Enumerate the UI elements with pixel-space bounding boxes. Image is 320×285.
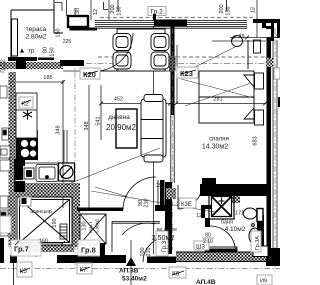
svg-text:3.50м2: 3.50м2	[152, 233, 175, 242]
svg-text:баня: баня	[221, 220, 233, 226]
svg-text:АП.4В: АП.4В	[196, 279, 216, 285]
svg-text:541: 541	[96, 116, 102, 125]
svg-text:12: 12	[196, 213, 202, 219]
svg-text:348: 348	[84, 121, 90, 130]
svg-text:150: 150	[117, 6, 123, 15]
svg-text:281: 281	[213, 97, 222, 103]
svg-text:12: 12	[251, 7, 257, 13]
svg-text:4.10м2: 4.10м2	[225, 226, 246, 233]
svg-text:Гр.2: Гр.2	[151, 9, 164, 16]
svg-text:39: 39	[238, 34, 244, 40]
svg-text:тр.: тр.	[28, 49, 36, 55]
svg-text:Гр.8: Гр.8	[81, 246, 96, 255]
svg-text:160: 160	[39, 239, 48, 245]
svg-text:200: 200	[110, 4, 116, 13]
svg-text:452: 452	[114, 97, 123, 103]
svg-text:АП.3В: АП.3В	[119, 268, 139, 275]
svg-text:И9: И9	[260, 279, 267, 285]
svg-text:80: 80	[43, 47, 49, 53]
svg-text:200: 200	[219, 4, 225, 13]
svg-text:39: 39	[275, 34, 280, 40]
svg-text:171: 171	[235, 211, 244, 217]
svg-text:20.90м2: 20.90м2	[106, 123, 137, 132]
svg-text:Ш3: Ш3	[196, 245, 205, 251]
svg-text:пом.1: пом.1	[88, 221, 93, 233]
svg-text:683: 683	[253, 136, 259, 145]
svg-text:210: 210	[144, 198, 150, 207]
svg-text:14.30м2: 14.30м2	[202, 144, 228, 151]
svg-text:210: 210	[146, 247, 152, 256]
svg-text:1.00м2: 1.00м2	[95, 218, 100, 233]
svg-text:130: 130	[82, 221, 88, 230]
svg-text:2.10: 2.10	[203, 239, 213, 245]
svg-text:30: 30	[75, 8, 81, 14]
svg-text:80: 80	[205, 233, 211, 239]
svg-text:190: 190	[52, 218, 58, 227]
svg-text:12: 12	[93, 9, 99, 15]
svg-text:Гр.32: Гр.32	[1, 59, 7, 72]
svg-text:К3Е: К3Е	[181, 202, 192, 208]
svg-text:Гр.3А: Гр.3А	[255, 236, 261, 250]
svg-text:тераса: тераса	[26, 26, 47, 33]
svg-text:185: 185	[43, 75, 52, 81]
svg-text:Гр.7: Гр.7	[14, 245, 29, 254]
svg-text:25: 25	[156, 183, 162, 189]
svg-text:53.40м2: 53.40м2	[122, 276, 147, 283]
svg-text:348: 348	[56, 125, 62, 134]
svg-text:150: 150	[50, 47, 56, 56]
svg-text:150: 150	[56, 28, 62, 37]
svg-text:150: 150	[226, 6, 232, 15]
svg-text:2.80м2: 2.80м2	[26, 34, 47, 41]
svg-text:асансьор: асансьор	[30, 209, 52, 215]
svg-text:225: 225	[63, 39, 72, 45]
svg-text:дневна: дневна	[108, 114, 130, 121]
svg-text:спалня: спалня	[209, 137, 229, 143]
